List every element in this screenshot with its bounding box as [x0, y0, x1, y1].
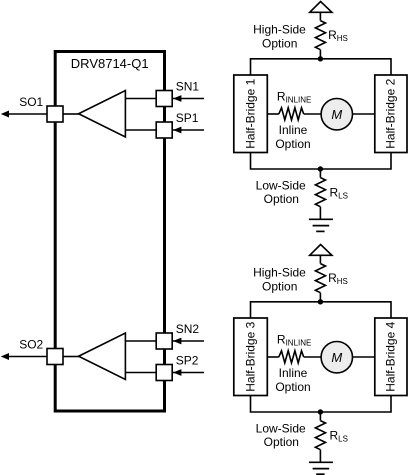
svg-text:Half-Bridge 1: Half-Bridge 1 [243, 78, 257, 148]
svg-text:SN1: SN1 [176, 79, 200, 93]
svg-text:SO1: SO1 [19, 95, 43, 109]
svg-text:Option: Option [264, 192, 299, 206]
svg-text:SN2: SN2 [176, 322, 200, 336]
svg-text:Inline: Inline [279, 366, 308, 380]
svg-text:Low-Side: Low-Side [256, 179, 306, 193]
svg-text:SO2: SO2 [19, 338, 43, 352]
svg-text:DRV8714-Q1: DRV8714-Q1 [71, 56, 149, 71]
svg-text:Half-Bridge 2: Half-Bridge 2 [384, 78, 398, 148]
svg-text:Option: Option [275, 380, 310, 394]
svg-text:High-Side: High-Side [253, 266, 306, 280]
svg-text:Option: Option [262, 280, 297, 294]
svg-text:Low-Side: Low-Side [256, 422, 306, 436]
svg-text:Option: Option [275, 137, 310, 151]
svg-text:High-Side: High-Side [253, 23, 306, 37]
svg-text:Half-Bridge 4: Half-Bridge 4 [384, 321, 398, 391]
svg-text:Half-Bridge 3: Half-Bridge 3 [243, 321, 257, 391]
svg-text:SP1: SP1 [176, 111, 199, 125]
svg-text:M: M [331, 350, 342, 365]
svg-text:Option: Option [264, 435, 299, 449]
svg-text:M: M [331, 107, 342, 122]
svg-text:Inline: Inline [279, 123, 308, 137]
svg-text:Option: Option [262, 37, 297, 51]
svg-text:SP2: SP2 [176, 353, 199, 367]
